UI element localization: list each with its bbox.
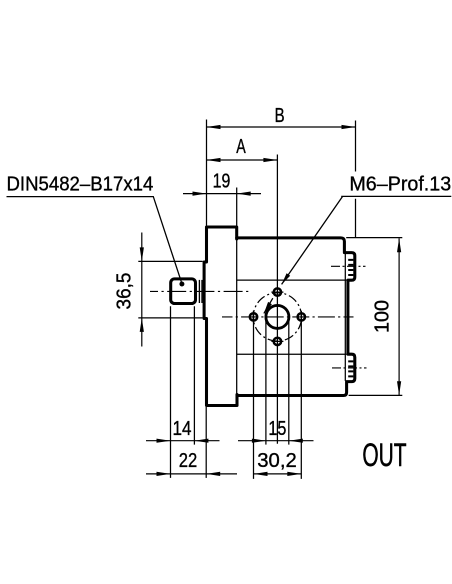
M6 tapped hole left: [250, 313, 257, 320]
lower boss thread lines: [348, 361, 353, 376]
M6 tapped hole right: [298, 313, 305, 320]
splined drive shaft end: [171, 279, 196, 304]
wire: 30,2 dimension line: [254, 473, 302, 475]
port face centerline: [222, 316, 354, 318]
leader line from M6 label to top port hole: [282, 196, 452, 284]
hole tick marks: [254, 292, 302, 341]
body right edge behind bosses: [344, 253, 346, 381]
wire: 100 dimension line: [398, 238, 400, 395]
spline section line 1: [198, 280, 200, 303]
svg-text:DIN5482–B17x14: DIN5482–B17x14: [7, 172, 154, 195]
wire: A dimension line: [207, 159, 278, 161]
svg-text:OUT: OUT: [362, 437, 406, 473]
ext line 36,5 top (pilot top): [138, 260, 202, 262]
spline section line 2: [201, 280, 203, 303]
mounting flange outline with pilot spigot: [204, 227, 237, 406]
shaft centerline: [150, 290, 249, 292]
port bore circle: [266, 305, 289, 328]
port pad top edge line: [237, 279, 347, 281]
ext line 100 top: [346, 237, 402, 239]
wire: B dimension line: [207, 126, 356, 128]
ext line port bore left (15 left): [265, 317, 267, 445]
svg-text:19: 19: [213, 170, 231, 193]
wire: 22 dimension line: [146, 473, 237, 475]
M6 tapped hole top: [274, 288, 281, 295]
flange right face line: [236, 239, 238, 394]
wire: 19 dimension line: [183, 193, 261, 195]
svg-text:M6–Prof.13: M6–Prof.13: [349, 172, 451, 195]
svg-text:22: 22: [179, 449, 198, 472]
ext line flange face bottom (22 right): [205, 407, 207, 478]
M6 tapped hole bottom: [274, 338, 281, 345]
svg-text:A: A: [236, 135, 246, 158]
wire: 15 dimension line: [238, 440, 314, 442]
upper boss centerline: [331, 265, 366, 267]
wire: 36,5 dimension line: [141, 233, 143, 347]
leader dot on shaft: [179, 282, 184, 287]
wire: 14 dimension line: [146, 440, 220, 442]
ext line 100 bottom: [349, 394, 403, 396]
svg-text:100: 100: [371, 300, 394, 333]
pump body outline (top edge, right side with port bosses, bottom edge): [237, 238, 355, 396]
ext line 36,5 bottom (pilot bottom): [138, 317, 202, 319]
svg-text:14: 14: [173, 417, 192, 440]
ext line flange left face (B/A/19 left): [206, 120, 208, 226]
upper boss thread lines: [348, 260, 353, 275]
svg-text:36,5: 36,5: [113, 273, 136, 310]
ext line spline end (14 right): [193, 306, 195, 444]
ext line B right at boss face: [355, 121, 357, 238]
svg-text:B: B: [275, 104, 285, 127]
ext line port bore right (15 right): [288, 317, 290, 445]
svg-text:30,2: 30,2: [257, 449, 297, 472]
port pad bottom edge line: [237, 353, 347, 355]
leader arrow continuation to port bore circle: [264, 298, 273, 313]
ext line left bolt hole (30,2 left): [253, 311, 255, 479]
bolt circle (dashed): [250, 290, 305, 345]
leader line from DIN5482 label to shaft: [7, 197, 182, 284]
ext line port vertical centerline (A right / 15 center): [276, 155, 278, 444]
ext line shaft end (14/22 left): [170, 306, 172, 478]
lower boss centerline: [332, 367, 367, 369]
ext line right bolt hole (30,2 right): [300, 311, 302, 479]
ext line flange right face (19 right): [236, 188, 238, 227]
